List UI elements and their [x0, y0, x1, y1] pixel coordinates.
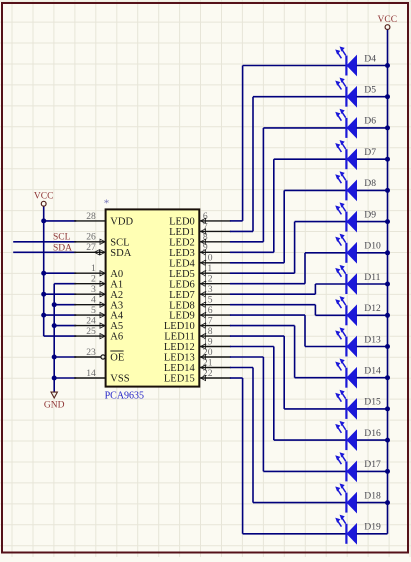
junction GND/VSS	[52, 376, 57, 381]
wire VCC to A2	[44, 293, 76, 295]
wire VCC rail vertical	[387, 30, 389, 534]
svg-text:D19: D19	[364, 522, 381, 533]
wire pin22 to D19	[230, 378, 347, 534]
svg-text:LED1: LED1	[169, 227, 195, 238]
svg-text:D11: D11	[364, 272, 380, 283]
junction rail/D16	[385, 438, 390, 443]
junction rail/D4	[385, 63, 390, 68]
junction rail/D8	[385, 188, 390, 193]
svg-text:26: 26	[86, 232, 96, 243]
pin 22 (LED15)	[164, 368, 231, 385]
pin 4 (A3)	[74, 295, 123, 312]
svg-text:LED9: LED9	[169, 311, 195, 322]
svg-text:D5: D5	[364, 85, 376, 96]
wire pin19 to D16	[230, 347, 347, 441]
junction rail/D11	[385, 282, 390, 287]
svg-text:D10: D10	[364, 241, 381, 252]
LED D10	[336, 234, 388, 263]
pin 26 (SCL)	[74, 232, 129, 249]
svg-text:LED15: LED15	[164, 374, 195, 385]
LED D19	[336, 515, 388, 544]
junction rail/D7	[385, 157, 390, 162]
wire pin13 to D11	[230, 284, 347, 294]
junction VCC/VDD	[41, 218, 46, 223]
svg-text:LED6: LED6	[169, 279, 195, 290]
svg-text:15: 15	[203, 295, 213, 306]
LED D4	[336, 47, 388, 76]
svg-text:*: *	[104, 198, 110, 210]
wire pin7 to D5	[230, 97, 347, 232]
junction rail/D15	[385, 406, 390, 411]
pin 8 (LED2)	[169, 232, 231, 249]
svg-text:LED3: LED3	[169, 248, 195, 259]
junction rail/D18	[385, 500, 390, 505]
pin 20 (LED13)	[164, 347, 231, 364]
LED D18	[336, 484, 388, 513]
svg-text:D12: D12	[364, 303, 381, 314]
junction rail/D13	[385, 344, 390, 349]
svg-text:16: 16	[203, 305, 213, 316]
svg-text:5: 5	[91, 305, 96, 316]
svg-text:A6: A6	[110, 332, 123, 343]
svg-text:D16: D16	[364, 428, 381, 439]
svg-text:LED10: LED10	[164, 321, 195, 332]
pin 2 (A1)	[74, 274, 123, 291]
svg-text:12: 12	[203, 274, 213, 285]
wire GND to VSS	[54, 377, 76, 379]
LED D13	[336, 328, 388, 357]
LED D15	[336, 390, 388, 419]
LED D6	[336, 109, 388, 138]
wire GND to OE	[54, 356, 76, 358]
svg-text:28: 28	[86, 211, 96, 222]
svg-text:23: 23	[86, 347, 96, 358]
svg-text:LED13: LED13	[164, 353, 195, 364]
svg-text:13: 13	[203, 284, 213, 295]
wire pin17 to D14	[230, 326, 347, 378]
svg-text:20: 20	[203, 347, 213, 358]
svg-text:D17: D17	[364, 459, 381, 470]
wire pin12 to D10	[230, 253, 347, 284]
wire VCC to A6	[44, 335, 76, 337]
pin 11 (LED5)	[169, 263, 231, 280]
svg-text:24: 24	[86, 316, 96, 327]
wire pin16 to D13	[230, 315, 347, 346]
LED D17	[336, 453, 388, 482]
wire VCC to A0	[44, 272, 76, 274]
junction VCC/A2	[41, 292, 46, 297]
svg-text:D14: D14	[364, 366, 381, 377]
wire pin18 to D15	[230, 336, 347, 409]
svg-text:SDA: SDA	[110, 248, 131, 259]
svg-text:D9: D9	[364, 209, 376, 220]
wire pin9 to D7	[230, 159, 347, 252]
pin 12 (LED6)	[169, 274, 231, 291]
pin 23 (OE)	[74, 347, 124, 364]
svg-text:3: 3	[91, 284, 96, 295]
ground GND power port	[44, 392, 65, 410]
power port VCC (right)	[378, 15, 398, 30]
svg-text:GND: GND	[44, 400, 65, 410]
wire VCC vertical net	[43, 206, 45, 336]
pin 21 (LED14)	[164, 357, 231, 374]
LED D12	[336, 297, 388, 326]
svg-text:LED5: LED5	[169, 269, 195, 280]
junction GND/OE	[52, 355, 57, 360]
wire VCC to A4	[44, 314, 76, 316]
svg-text:D13: D13	[364, 334, 381, 345]
LED D11	[336, 265, 388, 294]
svg-text:A2: A2	[110, 290, 123, 301]
svg-text:SCL: SCL	[53, 232, 71, 242]
svg-text:A0: A0	[110, 269, 123, 280]
wire net SDA	[13, 251, 76, 253]
junction rail/D5	[385, 94, 390, 99]
wire GND to A3	[54, 304, 76, 306]
LED D9	[336, 203, 388, 232]
wire pin21 to D18	[230, 368, 347, 503]
power port VCC (left)	[34, 191, 54, 206]
junction GND/A3	[52, 302, 57, 307]
pin 28 (VDD)	[74, 211, 133, 228]
svg-text:D15: D15	[364, 397, 381, 408]
pin 18 (LED11)	[164, 326, 231, 343]
svg-text:LED8: LED8	[169, 300, 195, 311]
pin 15 (LED8)	[169, 295, 231, 312]
svg-text:SCL: SCL	[110, 237, 129, 248]
svg-text:21: 21	[203, 357, 213, 368]
wire pin10 to D8	[230, 190, 347, 262]
wire A1 to GND net	[54, 283, 76, 285]
pin 17 (LED10)	[164, 316, 231, 333]
svg-text:A5: A5	[110, 321, 123, 332]
svg-text:14: 14	[86, 368, 96, 379]
svg-text:D4: D4	[364, 53, 376, 64]
pin 3 (A2)	[74, 284, 123, 301]
LED D14	[336, 359, 388, 388]
pin 25 (A6)	[74, 326, 123, 343]
pin 13 (LED7)	[169, 284, 231, 301]
pin 7 (LED1)	[169, 221, 231, 238]
svg-text:4: 4	[91, 295, 96, 306]
svg-text:VSS: VSS	[110, 374, 129, 385]
svg-text:18: 18	[203, 326, 213, 337]
svg-text:A1: A1	[110, 279, 123, 290]
pin 10 (LED4)	[169, 253, 231, 270]
junction VCC/A0	[41, 271, 46, 276]
junction rail/D6	[385, 125, 390, 130]
pin 27 (SDA)	[74, 242, 132, 259]
pin 19 (LED12)	[164, 336, 231, 353]
svg-text:LED2: LED2	[169, 237, 195, 248]
junction rail/D9	[385, 219, 390, 224]
pin 5 (A4)	[74, 305, 124, 322]
wire pin11 to D9	[230, 222, 347, 274]
LED D7	[336, 141, 388, 170]
wire VCC to VDD	[44, 220, 76, 222]
IC U1 PCA9635 body	[106, 209, 200, 386]
svg-text:10: 10	[203, 253, 213, 264]
pin 16 (LED9)	[169, 305, 231, 322]
wire pin6 to D4	[230, 66, 347, 221]
svg-text:A3: A3	[110, 300, 123, 311]
pin 9 (LED3)	[169, 242, 231, 259]
svg-text:22: 22	[203, 368, 213, 379]
svg-text:LED14: LED14	[164, 363, 196, 374]
svg-text:19: 19	[203, 336, 213, 347]
pin 1 (A0)	[74, 263, 123, 280]
svg-text:D8: D8	[364, 178, 376, 189]
svg-text:17: 17	[203, 316, 213, 327]
svg-text:D7: D7	[364, 147, 376, 158]
junction rail/D17	[385, 469, 390, 474]
pin 24 (A5)	[74, 316, 123, 333]
svg-text:1: 1	[91, 263, 96, 274]
svg-text:LED12: LED12	[164, 342, 195, 353]
junction VCC/A4	[41, 313, 46, 318]
svg-text:LED11: LED11	[164, 332, 195, 343]
svg-text:25: 25	[86, 326, 96, 337]
LED D8	[336, 172, 388, 201]
svg-text:VDD: VDD	[110, 217, 133, 228]
svg-text:LED0: LED0	[169, 217, 195, 228]
svg-text:VCC: VCC	[34, 191, 54, 201]
wire GND to A5	[54, 325, 76, 327]
svg-text:PCA9635: PCA9635	[105, 391, 144, 402]
svg-text:2: 2	[91, 274, 96, 285]
svg-text:OE: OE	[110, 353, 124, 364]
wire pin20 to D17	[230, 357, 347, 471]
wire pin8 to D6	[230, 128, 347, 242]
junction rail/D14	[385, 375, 390, 380]
pin 6 (LED0)	[169, 211, 231, 228]
svg-text:D6: D6	[364, 116, 376, 127]
svg-text:D18: D18	[364, 490, 381, 501]
svg-text:SDA: SDA	[53, 244, 72, 254]
svg-text:A4: A4	[110, 311, 124, 322]
junction GND/A5	[52, 323, 57, 328]
svg-text:VCC: VCC	[378, 15, 398, 25]
junction rail/D10	[385, 250, 390, 255]
junction rail/D12	[385, 313, 390, 318]
svg-text:11: 11	[203, 263, 212, 274]
LED D5	[336, 78, 388, 107]
svg-text:LED7: LED7	[169, 290, 195, 301]
LED D16	[336, 422, 388, 451]
wire GND vertical net	[53, 284, 55, 392]
svg-text:LED4: LED4	[169, 258, 195, 269]
wire pin15 to D12	[230, 305, 347, 316]
svg-text:27: 27	[86, 242, 96, 253]
pin 14 (VSS)	[74, 368, 130, 385]
wire net SCL	[13, 241, 76, 243]
